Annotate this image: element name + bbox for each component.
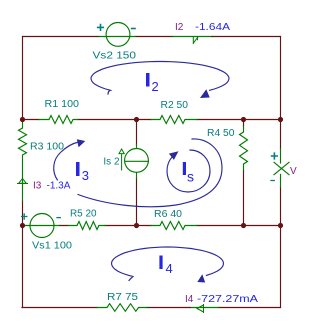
Vs1 plus sign xyxy=(22,214,27,219)
voltage source Vs2 xyxy=(99,23,136,47)
svg-text:-727.27mA: -727.27mA xyxy=(197,294,258,305)
svg-text:Vs2 150: Vs2 150 xyxy=(93,51,137,62)
current mark on left wire xyxy=(18,179,28,184)
current mark on bottom wire xyxy=(197,305,204,313)
wire bottom (right of probe segment) xyxy=(219,307,281,309)
wire top current-probe segment (green) xyxy=(173,36,213,38)
wire R4 branch maroon xyxy=(243,120,245,226)
mesh loop I2 arrowhead xyxy=(200,89,210,98)
svg-text:-1.3A: -1.3A xyxy=(47,181,71,192)
wire bottom (R7 to probe segment) xyxy=(147,307,190,309)
label I2 xyxy=(146,73,159,94)
wire top (right of probe segment) xyxy=(212,36,281,38)
mesh loop I3 arc xyxy=(54,143,77,181)
resistor R4 xyxy=(240,126,248,170)
voltage probe X xyxy=(274,149,289,187)
svg-text:R3 100: R3 100 xyxy=(30,142,64,153)
wire top (left of Vs2) xyxy=(23,36,100,38)
Vs2 minus sign xyxy=(132,28,135,30)
wire left edge upper xyxy=(22,201,24,308)
svg-text:R6 40: R6 40 xyxy=(154,209,182,220)
resistor R2 xyxy=(151,116,197,124)
Vs1 minus sign xyxy=(57,217,60,219)
svg-text:Is 2: Is 2 xyxy=(103,157,120,168)
resistor R3 xyxy=(19,120,27,202)
mesh loop I2 arc xyxy=(91,62,229,95)
svg-text:-1.64A: -1.64A xyxy=(195,22,230,33)
Is direction arrow xyxy=(119,149,124,170)
probe minus sign xyxy=(271,180,274,182)
label I3 xyxy=(76,162,89,183)
svg-text:R7 75: R7 75 xyxy=(107,292,139,303)
svg-text:s: s xyxy=(187,169,194,185)
Vs2 plus sign xyxy=(98,25,104,31)
mesh loop Is outer spiral xyxy=(78,139,222,207)
label Is xyxy=(183,162,194,185)
current source Is xyxy=(125,145,149,179)
wire bottom (left of R7) xyxy=(22,307,97,309)
current mark on top wire xyxy=(193,37,198,44)
svg-text:R1 100: R1 100 xyxy=(45,99,80,110)
svg-text:I2: I2 xyxy=(175,22,184,33)
svg-text:R5 20: R5 20 xyxy=(70,208,97,219)
mesh loop I4 arc xyxy=(112,247,224,281)
wire bottom current-probe segment (green) xyxy=(190,307,219,309)
resistor R1 xyxy=(39,116,78,124)
probe plus sign xyxy=(272,153,278,159)
svg-text:2: 2 xyxy=(152,79,159,94)
svg-text:3: 3 xyxy=(82,168,89,183)
svg-text:I3: I3 xyxy=(33,181,42,192)
label I4 xyxy=(159,256,172,277)
wire top (Vs2 to probe segment) xyxy=(136,36,173,38)
wire Is branch maroon xyxy=(136,120,138,226)
mesh loop Is arrowhead xyxy=(169,151,179,160)
svg-text:Vs1 100: Vs1 100 xyxy=(32,241,72,252)
resistor R5 xyxy=(68,222,105,230)
mesh loop I4 arrowhead xyxy=(197,274,205,282)
resistor R6 xyxy=(151,222,197,230)
wire row2 maroon segments xyxy=(60,225,281,227)
svg-text:R4 50: R4 50 xyxy=(207,128,235,139)
svg-text:I4: I4 xyxy=(185,294,194,305)
svg-text:V: V xyxy=(290,166,297,177)
wire left edge top xyxy=(22,37,24,120)
mesh loop Is inner circle xyxy=(167,150,210,192)
svg-text:R2 50: R2 50 xyxy=(161,100,189,111)
svg-text:4: 4 xyxy=(166,261,173,276)
resistor R7 xyxy=(97,304,147,312)
voltage source Vs1 xyxy=(23,214,60,238)
wire right edge upper xyxy=(280,37,282,149)
wire right edge lower xyxy=(280,187,282,308)
wire row1 maroon segments xyxy=(23,119,281,121)
mesh loop I3 arrowhead xyxy=(77,139,86,147)
